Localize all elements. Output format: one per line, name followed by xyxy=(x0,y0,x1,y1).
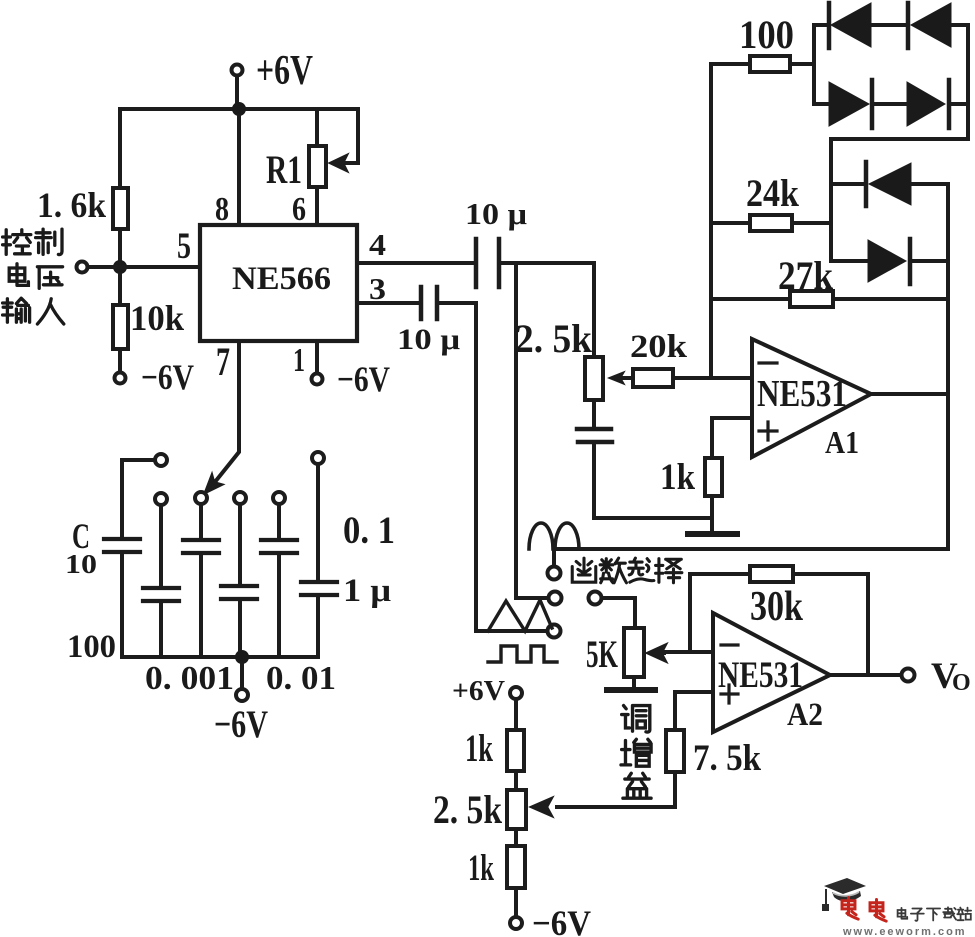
wire 1k to -6V xyxy=(514,888,518,917)
wire common to 5K xyxy=(602,598,635,628)
watermark graduation cap logo xyxy=(822,878,866,911)
capacitor under pot xyxy=(577,429,612,442)
capacitor C1 xyxy=(104,539,140,552)
net1 right bus xyxy=(966,25,970,139)
net2 right bus xyxy=(946,184,950,549)
wire pin 7 to switch arm xyxy=(215,341,239,482)
watermark 下 xyxy=(927,909,940,921)
svg-text:8: 8 xyxy=(215,191,229,228)
wire R1 wiper loop xyxy=(345,109,358,163)
resistor 10k xyxy=(113,305,128,349)
svg-text:10k: 10k xyxy=(130,298,184,338)
watermark 载 xyxy=(943,907,956,919)
wire pin 1 xyxy=(315,341,319,373)
svg-text:+6V: +6V xyxy=(256,48,313,94)
diode D6 xyxy=(868,240,906,282)
wire net1 row1 xyxy=(814,23,968,27)
svg-text:30k: 30k xyxy=(750,584,804,630)
resistor 1k upper xyxy=(507,730,524,771)
wire rail to R1 top xyxy=(315,109,319,146)
potentiometer R1 xyxy=(309,146,326,187)
svg-text:10: 10 xyxy=(65,549,97,579)
svg-text:5: 5 xyxy=(177,226,191,267)
wire cap to 2.5k pot xyxy=(501,263,594,357)
label 调 xyxy=(622,706,650,732)
svg-text:100: 100 xyxy=(739,12,794,57)
diode D5 xyxy=(864,162,869,206)
divider -6V terminal xyxy=(510,917,522,929)
-6V terminal pin1 xyxy=(312,374,323,385)
wire node to 10k xyxy=(118,274,122,305)
wire 27k to right bus xyxy=(833,297,948,301)
A2 plus sign xyxy=(721,685,738,703)
wire 20k to A1 minus xyxy=(673,376,752,380)
wire 1k to ground xyxy=(710,496,714,531)
svg-text:20k: 20k xyxy=(630,329,688,365)
waveform symbol triangle wave xyxy=(488,600,552,631)
svg-text:2. 5k: 2. 5k xyxy=(433,787,503,832)
watermark 子 xyxy=(911,909,924,921)
net2 top wire xyxy=(831,137,968,141)
bottom bus wire xyxy=(556,547,948,551)
label 函 xyxy=(572,558,596,582)
svg-text:−6V: −6V xyxy=(532,903,591,937)
wire pin 4 xyxy=(357,261,473,265)
label 增 xyxy=(621,739,651,766)
wire cap bottom to 1k bottom xyxy=(594,444,712,518)
svg-text:1k: 1k xyxy=(465,727,493,770)
contact circle C4 xyxy=(234,492,246,504)
wire common to cap C1 xyxy=(122,460,155,537)
resistor 7.5k xyxy=(666,730,684,772)
wire pin 8 xyxy=(237,116,241,225)
node rail junction xyxy=(232,102,246,116)
wire +6V terminal to rail xyxy=(235,76,239,105)
svg-text:4: 4 xyxy=(369,227,386,262)
svg-text:NE531: NE531 xyxy=(718,655,803,696)
svg-text:R1: R1 xyxy=(266,147,302,192)
wiper arrow 2.5k mid xyxy=(623,376,633,380)
resistor 27k xyxy=(790,291,833,307)
R1 wiper arrowhead xyxy=(329,154,348,172)
+6V supply terminal xyxy=(232,65,243,76)
svg-text:O: O xyxy=(952,670,971,696)
divider +6V terminal xyxy=(510,687,522,699)
wire 5K wiper to A2 minus xyxy=(664,650,713,654)
wire A1 output xyxy=(871,392,948,396)
wire A2 output xyxy=(830,673,902,677)
cap bank bottom bus xyxy=(122,655,318,659)
capacitor 10u pin4 xyxy=(476,239,499,287)
svg-text:0. 001: 0. 001 xyxy=(145,660,234,697)
resistor 1.6k xyxy=(113,188,128,229)
switch arm arrowhead xyxy=(204,473,224,494)
A2 minus sign xyxy=(721,643,738,646)
contact circle selector common xyxy=(589,592,602,605)
svg-text:10 μ: 10 μ xyxy=(397,323,460,356)
ground 5K xyxy=(607,687,655,693)
capacitor 10u pin3 xyxy=(421,287,437,319)
5K wiper arrow xyxy=(660,651,664,655)
wire 27k xyxy=(711,297,790,301)
wire net1 row2 xyxy=(814,102,968,106)
wire 7.5k to divider arrow xyxy=(557,772,675,807)
wire triangle branch down xyxy=(516,263,548,598)
wire +6V to 1k xyxy=(514,699,518,730)
resistor 30k xyxy=(750,566,793,582)
wire and capacitor C2 xyxy=(159,505,163,586)
wire square branch down xyxy=(439,303,547,631)
wire and capacitor C3 xyxy=(199,504,203,538)
wire C1 to bus xyxy=(120,554,124,657)
resistor 1k A1 xyxy=(705,458,722,496)
watermark 站 xyxy=(957,908,971,921)
ground A1 xyxy=(688,531,737,537)
svg-text:+6V: +6V xyxy=(452,675,505,707)
wire 30k feedback xyxy=(690,574,750,652)
svg-text:1k: 1k xyxy=(468,848,494,889)
wire and capacitor C6 xyxy=(316,464,320,580)
label 输 xyxy=(3,298,30,322)
A1 minus sign xyxy=(759,361,777,364)
svg-text:−6V: −6V xyxy=(141,357,194,397)
node bus junction xyxy=(235,650,249,664)
svg-text:−6V: −6V xyxy=(337,359,390,399)
svg-text:6: 6 xyxy=(292,191,306,228)
watermark 电 xyxy=(898,908,908,919)
left feedback bus xyxy=(709,64,713,378)
op-amp A2 xyxy=(713,613,830,732)
wire pin 3 xyxy=(357,301,419,305)
net2 left bus xyxy=(829,139,833,261)
wire 100 xyxy=(711,62,750,66)
potentiometer 2.5k mid xyxy=(585,357,603,400)
wire R1 to pin 6 xyxy=(315,187,319,225)
resistor 24k xyxy=(750,215,792,231)
Vo terminal xyxy=(902,669,915,682)
wire pot to cap xyxy=(592,400,596,427)
wire rail to 1.6k xyxy=(118,109,122,188)
waveform symbol square wave xyxy=(488,646,557,662)
svg-text:A1: A1 xyxy=(825,424,859,460)
watermark 虫 1 xyxy=(842,898,858,920)
wire net2 row1 xyxy=(831,182,948,186)
label 制 xyxy=(36,229,62,254)
wire and capacitor C4 xyxy=(238,504,242,584)
contact circle sine xyxy=(548,567,561,580)
wire 24k to net2 xyxy=(792,221,831,225)
svg-text:7. 5k: 7. 5k xyxy=(693,738,761,779)
label 电 xyxy=(9,264,28,286)
svg-text:3: 3 xyxy=(369,271,386,306)
wire 30k to output xyxy=(793,574,868,675)
svg-text:1 μ: 1 μ xyxy=(343,573,391,609)
resistor 100 xyxy=(750,56,790,72)
sine wave symbol xyxy=(529,523,579,549)
A1 plus sign xyxy=(759,422,777,440)
wire 2.5k to 1k lower xyxy=(514,829,518,846)
diode D4 xyxy=(907,82,945,126)
diode D1 xyxy=(827,3,832,48)
wire A1 plus input xyxy=(712,418,752,458)
svg-text:24k: 24k xyxy=(746,172,799,215)
wire top rail xyxy=(120,107,358,111)
wire 24k xyxy=(711,221,750,225)
-6V terminal cap bank xyxy=(236,689,248,701)
svg-text:2. 5k: 2. 5k xyxy=(515,316,593,361)
svg-text:1. 6k: 1. 6k xyxy=(37,185,106,225)
contact circle C3 xyxy=(195,492,207,504)
wire input to pin 5 xyxy=(88,265,200,269)
svg-text:0. 1: 0. 1 xyxy=(343,509,395,552)
svg-text:1k: 1k xyxy=(660,457,695,498)
resistor 20k xyxy=(633,369,673,387)
wire sine stub xyxy=(552,549,556,566)
diode D3 xyxy=(829,82,869,126)
svg-text:A2: A2 xyxy=(787,697,823,733)
svg-text:5K: 5K xyxy=(586,633,618,676)
diode net1 left bus xyxy=(812,25,816,104)
contact circle C2 xyxy=(155,493,167,505)
svg-text:NE566: NE566 xyxy=(232,261,331,297)
label 数 xyxy=(600,558,626,583)
wire bus to -6V xyxy=(240,664,244,689)
wire 1.6k to input node xyxy=(118,229,122,267)
wire net2 row2 xyxy=(831,259,948,263)
label 控 xyxy=(3,230,31,255)
label 压 xyxy=(37,267,62,289)
wire 1k to 2.5k xyxy=(514,771,518,790)
potentiometer 5K xyxy=(624,628,644,677)
svg-text:100: 100 xyxy=(67,629,116,665)
-6V terminal left xyxy=(115,373,126,384)
watermark 虫 2 xyxy=(870,900,886,922)
contact circle switch common cap bank xyxy=(155,454,167,466)
label 选 xyxy=(629,558,654,582)
svg-text:10 μ: 10 μ xyxy=(465,196,527,231)
contact circle triangle xyxy=(549,592,562,605)
divider arrowhead at 2.5k xyxy=(530,797,553,817)
label 择 xyxy=(656,559,682,583)
op-amp A1 xyxy=(752,339,871,457)
svg-text:0. 01: 0. 01 xyxy=(266,660,336,697)
resistor 1k lower xyxy=(507,846,525,888)
contact circle square xyxy=(548,625,561,638)
wire A2 plus input xyxy=(675,692,713,730)
label 益 xyxy=(623,773,651,798)
wire 10k to -6V xyxy=(118,349,122,372)
wire 100 to diode net1 xyxy=(790,62,814,66)
svg-text:NE531: NE531 xyxy=(757,373,847,415)
svg-text:−6V: −6V xyxy=(214,703,268,746)
IC NE566 xyxy=(200,225,357,341)
contact circle C5 xyxy=(273,492,285,504)
svg-text:27k: 27k xyxy=(778,253,834,298)
contact circle C6 xyxy=(312,452,324,464)
label 入 xyxy=(37,299,63,324)
potentiometer 2.5k divider xyxy=(507,790,526,829)
wire and capacitor C5 xyxy=(277,504,281,538)
wire 5K to ground xyxy=(632,677,636,687)
svg-text:7: 7 xyxy=(216,339,230,384)
svg-text:www.eeworm.com: www.eeworm.com xyxy=(842,926,967,937)
svg-text:1: 1 xyxy=(293,342,305,379)
node input junction xyxy=(113,260,127,274)
diode D2 xyxy=(906,3,911,48)
input terminal xyxy=(77,262,88,273)
